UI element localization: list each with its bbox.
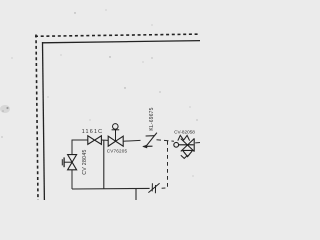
inner solid border top (42, 41, 201, 43)
svg-text:KL-69675: KL-69675 (149, 107, 155, 130)
pipe break symbol (148, 183, 159, 193)
valve CV76205 actuator dome (112, 124, 120, 130)
wire riser to CV 28045 (72, 140, 88, 155)
dashed drop wire (160, 141, 168, 188)
dashed wire to CV-82058 (157, 140, 175, 141)
valve CV 28045 body (68, 155, 77, 170)
valve CV-82058 stem (179, 144, 194, 146)
valve CV-82058 solenoid circle (174, 142, 179, 147)
inner solid border left (43, 42, 45, 201)
outer dashed border top (35, 34, 201, 36)
outer dashed border left (36, 35, 38, 202)
svg-text:CV 28045: CV 28045 (82, 149, 88, 174)
valve CV76205 body (108, 136, 123, 146)
scan smudge left edge (0, 105, 10, 113)
wire junction drop (103, 140, 105, 189)
svg-text:CV-82058: CV-82058 (174, 130, 195, 135)
valve CV-82058 fail indicator (181, 155, 188, 158)
bottom header pipe (72, 187, 150, 190)
valve 1161C body (88, 136, 102, 145)
valve CV76205 actuator stem (115, 130, 117, 141)
sample symbol arrowhead (142, 145, 147, 149)
scan speckles (1, 10, 197, 177)
valve CV-82058 spring M (178, 135, 190, 140)
valve CV 28045 actuator handle (62, 157, 72, 167)
valve CV-82058 body (181, 138, 194, 156)
wire CV76205 to sample symbol (123, 139, 140, 142)
wire valve 1161C to junction (101, 139, 108, 141)
svg-text:CV76205: CV76205 (107, 149, 128, 154)
wire drop to bottom edge (135, 189, 137, 201)
sample symbol KL-69675 (143, 133, 157, 147)
svg-text:1161C: 1161C (82, 129, 103, 135)
wire below CV 28045 (71, 170, 73, 189)
dashed wire exiting right (195, 142, 200, 144)
